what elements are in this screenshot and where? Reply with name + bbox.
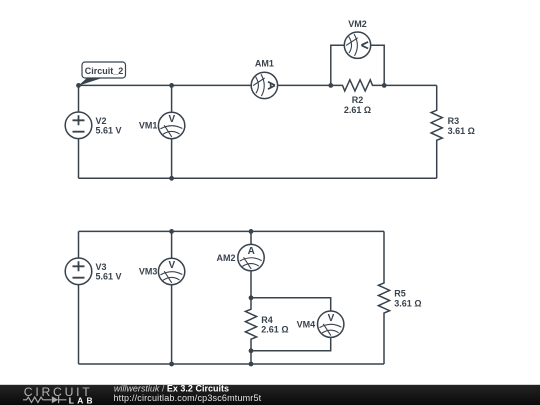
wire left rail lower stub (V2 minus to bottom rail) [78,139,80,179]
node R4 top junction dot [249,295,254,300]
wire left rail lower stub (V3 to bottom) [78,285,80,364]
ammeter AM1 [251,72,277,98]
node AM2 top junction dot [249,229,254,234]
wire bottom circuit bottom rail [79,363,385,365]
svg-text:V: V [168,114,175,125]
resistor R4 [245,298,256,351]
wire AM2 to R4 [250,271,252,298]
svg-text:R4: R4 [261,315,273,325]
svg-text:AM2: AM2 [216,253,235,263]
voltage source V2 [65,112,92,139]
svg-text:A: A [248,246,255,257]
svg-text:5.61 V: 5.61 V [96,272,122,282]
wire left rail upper stub (node A to V2 plus) [78,85,80,112]
resistor R5 [378,231,389,364]
wire VM1 top stub [171,85,173,112]
node R2 right junction dot [382,83,387,88]
voltmeter VM1 [158,112,184,138]
svg-text:2.61 Ω: 2.61 Ω [261,325,288,335]
wire bottom rail of top circuit [79,177,437,179]
Circuit_2 label box [82,62,126,78]
svg-text:LAB: LAB [69,395,96,405]
wire VM2 loop left [331,45,345,85]
node R4 bottom junction dot [249,348,254,353]
wire VM1 bottom stub [171,139,173,179]
voltmeter VM2 [344,32,370,58]
svg-text:2.61 Ω: 2.61 Ω [344,105,371,115]
svg-text:R2: R2 [352,95,364,105]
node R4 branch bottom junction dot [249,362,254,367]
svg-text:R3: R3 [448,116,460,126]
svg-text:V: V [328,313,335,324]
wire left rail upper stub (to V3) [78,231,80,258]
voltmeter VM4 [318,311,344,337]
node VM3 top junction dot [169,229,174,234]
resistor R3 [431,85,442,178]
node A junction dot (top-left) [76,83,81,88]
wire VM3 top stub [171,231,173,258]
svg-text:AM1: AM1 [255,59,274,69]
node VM1 top junction dot [169,83,174,88]
svg-text:VM1: VM1 [139,121,158,131]
svg-text:3.61 Ω: 3.61 Ω [448,126,475,136]
svg-text:VM3: VM3 [139,267,158,277]
wire top rail left segment (node A to AM1) [79,84,252,86]
Circuit_2 label callout pointer [78,78,101,85]
node R2 left junction dot [328,83,333,88]
wire top rail R2 right node to top-right corner [384,84,437,86]
ammeter AM2 [238,244,264,270]
resistor R2 [331,80,384,91]
footer logo resistor-diode glyph [23,397,52,402]
svg-text:VM2: VM2 [348,19,367,29]
svg-text:5.61 V: 5.61 V [96,126,122,136]
wire VM3 bottom stub [171,285,173,364]
wire VM2 loop right [371,45,385,85]
wire VM4 loop bottom [251,337,331,350]
node VM1 bottom junction dot [169,176,174,181]
wire AM2 top stub [250,231,252,244]
node VM3 bottom junction dot [169,362,174,367]
svg-text:VM4: VM4 [297,319,316,329]
svg-text:V: V [168,260,175,271]
voltage source V3 [65,258,92,285]
wire VM4 loop top [251,298,331,311]
svg-text:http://circuitlab.com/cp3sc6mt: http://circuitlab.com/cp3sc6mtumr5t [114,393,262,403]
wire top rail AM1 to R2 left node [278,84,331,86]
voltmeter VM3 [158,258,184,284]
wire bottom circuit top rail [79,230,385,232]
svg-text:3.61 Ω: 3.61 Ω [394,299,421,309]
svg-text:R5: R5 [394,289,406,299]
svg-text:V3: V3 [96,262,107,272]
svg-text:willwerstiuk / Ex 3.2 Circuits: willwerstiuk / Ex 3.2 Circuits [114,383,229,393]
wire R4 bottom to bottom rail [250,351,252,364]
footer bar [0,385,540,405]
svg-text:Circuit_2: Circuit_2 [85,66,124,76]
